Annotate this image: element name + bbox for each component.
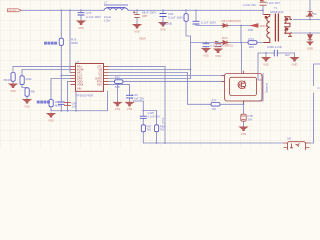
junction rail / C92 (162, 9, 164, 11)
op-amp U7 controller IC (71, 64, 109, 92)
svg-text:4.7uF 100V: 4.7uF 100V (86, 15, 101, 19)
red diodes (221, 12, 313, 122)
svg-text:434k: 434k (25, 77, 32, 81)
wire cap C90 drop and snubber wire1 (196, 10, 250, 25)
resistor R87 feedback (141, 125, 145, 132)
svg-text:C87: C87 (142, 14, 148, 18)
capacitor C105 feedback (140, 116, 147, 118)
svg-text:2kV: 2kV (285, 53, 290, 57)
ground VSS under C87 (133, 24, 141, 29)
svg-text:D10: D10 (222, 36, 228, 40)
svg-text:0R62: 0R62 (71, 41, 78, 45)
diode D2 secondary bottom (308, 35, 313, 40)
ground VSS under C76 (77, 20, 85, 25)
svg-text:2.2uF 25V: 2.2uF 25V (243, 3, 256, 7)
resistor gate R95 horizontal (115, 80, 124, 84)
wire IC left pin6 stub (68, 81, 71, 83)
transformer core (275, 14, 278, 42)
zener D7B (241, 114, 246, 121)
wire IC right pin6 through gate resistor (109, 81, 225, 83)
svg-text:VSS: VSS (263, 62, 269, 66)
svg-text:1.0A: 1.0A (104, 19, 110, 23)
wire right edge feedback column (314, 64, 320, 143)
wire drain drop into optional box (241, 43, 243, 74)
ground VSS under shunt resistor (47, 113, 55, 118)
svg-text:7k5: 7k5 (147, 128, 152, 132)
svg-text:VSS: VSS (134, 29, 140, 33)
wire sense column branch to IC pin4 (61, 75, 70, 77)
svg-text:0.1uF 100V: 0.1uF 100V (201, 21, 216, 25)
wire feedback RC column x143 (133, 101, 143, 143)
svg-text:VB1K: VB1K (139, 37, 146, 41)
svg-text:43k: 43k (30, 89, 35, 93)
port arrow VDD right of D8 (250, 24, 259, 28)
port arrow AC input (8, 9, 22, 12)
junction rail / C87 (136, 9, 138, 11)
capacitor C930 Y-cap vertical plates (274, 50, 277, 57)
capacitor C90 (193, 21, 200, 24)
ground GND on Y-cap bridge (290, 57, 298, 62)
resistor shunt 10k (49, 100, 53, 107)
resistor RB divider top (20, 76, 24, 85)
optional MOSFET box Q1 (222, 71, 263, 104)
wire bottom-left cluster bus (51, 91, 108, 110)
svg-text:VSS: VSS (203, 53, 209, 57)
wire IC right pin5 stub (109, 78, 191, 80)
blue resistors (11, 14, 257, 132)
svg-text:15R: 15R (248, 28, 253, 32)
svg-text:VSS: VSS (78, 26, 84, 30)
svg-text:0.1uF 100V: 0.1uF 100V (168, 15, 183, 19)
wire divider RB to RC elbow (22, 85, 27, 98)
wire 2M resistor drop (186, 10, 191, 36)
ground VSS under C110 (125, 101, 133, 106)
pin stubs of box (222, 71, 244, 104)
wire diode D2 stems (309, 33, 311, 41)
svg-text:TPS92074DR: TPS92074DR (76, 94, 94, 98)
svg-text:D8 1N4007(W): D8 1N4007(W) (222, 19, 241, 23)
junction rail / C90 (195, 9, 197, 11)
wire sense column x61 (60, 10, 62, 110)
wire IC left pin1 to resistor RA (13, 66, 71, 83)
svg-text:L7: L7 (104, 1, 108, 5)
resistor R2M line filter (184, 14, 188, 22)
resistor R77 horizontal on gate-drive run (211, 103, 220, 107)
svg-text:7M43: 7M43 (3, 78, 11, 82)
IC pin names (77, 64, 84, 90)
svg-text:51R: 51R (115, 85, 120, 89)
red designator labels (8, 9, 267, 47)
ground symbols (VSS/GND) (9, 20, 313, 131)
svg-text:2M(1206): 2M(1206) (160, 22, 172, 26)
svg-text:C105: C105 (148, 111, 155, 115)
junction cluster bus / IC stub (75, 110, 77, 112)
inductor L7 (104, 5, 128, 10)
svg-text:R95: R95 (115, 76, 120, 80)
transformer secondary winding upper (284, 17, 292, 20)
ground VSS under divider RC (23, 99, 31, 104)
svg-text:U8: U8 (287, 137, 291, 141)
junction bottom rail / CTL column (164, 142, 166, 144)
resistor R74 horizontal on wire2 (248, 41, 257, 45)
wire IC right pin4 (109, 75, 225, 77)
text fenliu dianzu (shunt resistor) (37, 101, 40, 104)
diode D1 secondary top rectifier (306, 12, 313, 17)
ground VSS under C99 (214, 48, 222, 53)
red electrolytic capacitors (64, 0, 266, 106)
svg-text:VSS: VSS (10, 89, 16, 93)
pin stubs right (104, 66, 109, 84)
svg-text:VSS: VSS (127, 107, 133, 111)
wire IC right pin3 down to gate-drive run (109, 73, 244, 105)
junction gate-drive / zener (243, 103, 245, 105)
wire top AC rail (22, 9, 263, 11)
junction rail / R2M (185, 9, 187, 11)
wire2 primary bottom (191, 42, 264, 44)
svg-text:39V: 39V (248, 117, 253, 121)
svg-text:VIN: VIN (77, 87, 81, 91)
wire divider column x156.5 (143, 111, 156, 144)
svg-text:VSS: VSS (115, 107, 121, 111)
blue value labels (3, 1, 320, 141)
wire ground stem x117.5 (117, 85, 119, 102)
wire IC right pin1 to bottom rail (109, 66, 165, 143)
junction cluster bus / C64 (67, 110, 69, 112)
svg-text:0.1uF 50V: 0.1uF 50V (148, 115, 161, 119)
capacitor C64 red bottom-left (64, 102, 71, 105)
capacitor C76 (78, 13, 85, 15)
svg-text:7k5: 7k5 (160, 128, 165, 132)
wire secondary output top (294, 19, 320, 21)
svg-text:VSS: VSS (215, 54, 221, 58)
ground VSS on Y-cap bridge (262, 57, 270, 62)
svg-text:CTL1: CTL1 (161, 117, 165, 124)
ground VSS under C94 snubber (202, 48, 210, 53)
text jiance dianzu (sense resistor) (44, 42, 47, 45)
svg-text:VSS: VSS (241, 132, 247, 136)
capacitor C99 (NC) (215, 42, 222, 47)
wire IC right pin2 (109, 69, 191, 71)
transformer polarity dots (265, 16, 267, 18)
svg-text:C930 2.2nF: C930 2.2nF (267, 45, 282, 49)
resistor RA 2M43 (11, 73, 15, 82)
wire VSS stem on bridge (265, 53, 267, 57)
ground VSS under resistor RA (9, 83, 17, 88)
resistor RC divider bottom (25, 88, 29, 97)
junction snubber wire / x241 (240, 25, 242, 27)
junction wire2 / x241 (240, 42, 242, 44)
junction rail / x70 column (69, 9, 71, 11)
junction wire2 / C99 (217, 42, 219, 44)
wire IC left pin5 down through R shunt (51, 79, 71, 111)
junction bottom rail / R88 (156, 142, 158, 144)
junction wire2 / C94 (205, 42, 207, 44)
capacitor C75 top edge (260, 0, 267, 5)
svg-text:GND: GND (307, 47, 313, 51)
resistor R76 current sense (59, 38, 63, 45)
blue capacitors (58, 13, 277, 119)
svg-text:AC+DC: AC+DC (8, 9, 16, 12)
chinese text blocks as glyph rects (37, 42, 57, 104)
svg-text:VSS: VSS (97, 83, 102, 87)
junction rail / transformer corner (262, 9, 264, 11)
svg-text:R74: R74 (249, 37, 255, 41)
resistor R88 feedback (155, 125, 159, 132)
svg-text:VSS: VSS (160, 27, 166, 31)
junction sense column / pin4 wire (60, 75, 62, 77)
svg-text:Optional: Optional (265, 83, 269, 93)
svg-text:2.2uF 25V: 2.2uF 25V (267, 1, 280, 5)
wire vertical x190.5 (190, 36, 192, 79)
wire GND stem on bridge (294, 53, 296, 57)
junction rail / C76 (80, 9, 82, 11)
wire IC bottom stub x76 (75, 91, 77, 110)
wire cap C87 drop (136, 10, 138, 23)
svg-text:VSS: VSS (24, 104, 30, 108)
wire red cap column x67.5 (67, 82, 69, 111)
capacitor C84 bottom-left (58, 102, 65, 104)
svg-text:1uF: 1uF (72, 105, 77, 109)
svg-text:C99(NC): C99(NC) (223, 43, 234, 47)
junction rail / sense column (60, 9, 62, 11)
capacitor C110 (126, 95, 133, 98)
transistor Q1 glyph (238, 81, 246, 89)
wire rail up to top cap C75 (262, 6, 264, 10)
ground VSS under C92 (159, 22, 167, 27)
wire x241 between wire1 and wire2 (240, 26, 242, 43)
wire column x70 to IC pin3 (69, 10, 72, 72)
wire IC right pin7 to cap C110 (109, 85, 130, 102)
svg-text:4k99: 4k99 (54, 103, 61, 107)
svg-text:VDD1: VDD1 (260, 24, 268, 28)
capacitor C94 snubber (203, 44, 210, 47)
transformer secondary winding lower (284, 26, 290, 28)
svg-text:0.1uF 25V: 0.1uF 25V (211, 44, 224, 48)
wire Y-cap left drop (258, 53, 262, 80)
junction pin2 wire / x190 column (190, 69, 192, 71)
diode D10 on primary return (221, 41, 230, 45)
capacitor C87 bulk (133, 11, 140, 17)
transformer primary winding (264, 15, 270, 17)
ground VSS under zener D7B (239, 126, 247, 131)
ground VSS x117.5 under IC (113, 101, 121, 106)
wire rail corner into transformer primary top (262, 10, 264, 14)
junction pin7 wire / ground stem (117, 84, 119, 86)
svg-text:R77: R77 (212, 98, 217, 102)
capacitor C92 (160, 14, 167, 17)
junction cluster bus / C84 (60, 110, 62, 112)
wire secondary output bottom (292, 32, 320, 34)
junction output top / D9 (309, 19, 311, 21)
pin stubs left (71, 66, 76, 84)
wire cap C92 drop (162, 10, 164, 21)
svg-text:7k5: 7k5 (212, 107, 217, 111)
wire bottom rail (143, 142, 313, 144)
svg-text:VDDI: VDDI (77, 83, 83, 87)
transformer T1 (264, 14, 293, 43)
diode D8 on snubber wire (221, 24, 230, 28)
svg-text:GND: GND (292, 62, 298, 66)
svg-text:U7: U7 (76, 60, 80, 64)
junction feedback column tap (142, 110, 144, 112)
op-amp U8 shunt regulator bottom edge (284, 142, 310, 151)
wire IC left pin2 to divider RB (22, 70, 71, 76)
svg-text:1R6: 1R6 (249, 45, 255, 49)
svg-text:4.7uF 35V: 4.7uF 35V (131, 97, 144, 101)
wire box bottom to zener (243, 101, 245, 126)
ground labels (10, 26, 313, 136)
wire Y-cap bridge (258, 52, 295, 54)
wire optional box right side (244, 74, 264, 102)
svg-text:VSS: VSS (48, 118, 54, 122)
svg-text:HR081142: HR081142 (270, 10, 284, 14)
junction output bottom / D2 (309, 32, 311, 34)
junction Y-bridge / VSS (265, 52, 267, 54)
wire rectifier column x307 (309, 0, 311, 20)
wire cap C76 drop (80, 10, 82, 20)
ground GND under secondary diode D2 (307, 41, 313, 45)
